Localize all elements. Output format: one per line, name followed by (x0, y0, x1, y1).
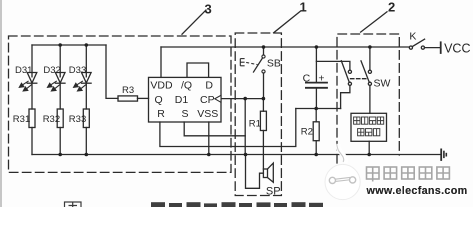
wire SP ground loop (246, 155, 264, 189)
svg-text:SP: SP (266, 186, 281, 198)
svg-text:D33: D33 (69, 65, 86, 76)
svg-text:1: 1 (300, 0, 307, 15)
svg-text:2: 2 (388, 0, 395, 15)
svg-text:R2: R2 (301, 127, 313, 138)
resistor R2 (313, 122, 319, 141)
speaker SP (263, 169, 267, 178)
wire S trace (184, 122, 245, 136)
switch SW right contacts (368, 70, 371, 73)
svg-text:www.elecfans.com: www.elecfans.com (366, 185, 468, 197)
wire D32 anode (59, 45, 61, 77)
switch SW left blade (341, 61, 349, 83)
LED D33 (82, 73, 92, 83)
wire CP to ground (244, 99, 246, 155)
wire K to VCC terminal (425, 47, 440, 49)
box 1 dashed (235, 33, 281, 196)
svg-text:D1: D1 (175, 94, 189, 106)
SB actuator E (240, 59, 257, 66)
leader line 1 (274, 12, 300, 33)
leader line 3 (182, 10, 206, 34)
capacitor C wire top (315, 47, 317, 83)
resistor R33 (83, 109, 89, 128)
caption character stubs (151, 202, 323, 207)
svg-text:Q: Q (155, 94, 163, 106)
capacitor C wire bottom (315, 88, 317, 109)
LED D32 (55, 73, 65, 83)
VCC terminal bar (440, 42, 442, 53)
wire SW right top (369, 47, 371, 70)
svg-text:CP: CP (200, 94, 215, 106)
resistor R1 (260, 111, 266, 130)
switch SB blade (254, 58, 263, 72)
wire SW right bottom (369, 85, 371, 113)
watermark logo circle (325, 164, 360, 199)
wire SW left bottom to node (341, 85, 350, 108)
wire solenoid to ground (368, 141, 370, 154)
wire LED top rail (32, 44, 106, 46)
switch SW gang link (351, 78, 367, 80)
switch SW right blade (361, 61, 369, 83)
wire /Q-D feedback loop (187, 63, 209, 77)
wire D33 anode (85, 45, 87, 77)
wire rail to R3 (106, 45, 118, 98)
svg-text:SW: SW (374, 77, 391, 89)
svg-text:R32: R32 (43, 114, 60, 125)
wire D32 cathode (59, 83, 61, 109)
wire D31 anode (31, 45, 33, 77)
svg-text:R1: R1 (249, 119, 261, 130)
wire R1 to SP (262, 131, 264, 170)
svg-text:R3: R3 (122, 85, 134, 96)
wire D33 cathode (85, 83, 87, 109)
op-amp U1 pin labels (150, 79, 218, 120)
switch K blade (412, 39, 424, 46)
leader line 2 (361, 12, 387, 32)
solenoid valve text 车门气缸 line 1 (simulated glyphs) (354, 117, 384, 124)
CP clock arrowhead (215, 95, 221, 102)
svg-text:VCC: VCC (444, 42, 470, 56)
wire C branch to SW left (316, 61, 350, 70)
LED D32 arrows (48, 81, 61, 91)
svg-text:+: + (318, 73, 324, 85)
box 3 dashed (9, 36, 232, 172)
svg-text:VSS: VSS (197, 108, 218, 120)
box 2 dashed (337, 34, 399, 163)
svg-text:R33: R33 (69, 114, 86, 125)
wire R1 top (262, 99, 264, 112)
svg-text:R: R (157, 108, 165, 120)
svg-text:/Q: /Q (181, 79, 192, 91)
svg-text:C: C (303, 73, 311, 85)
wire D31 cathode (31, 83, 33, 109)
caption 图 stub (65, 202, 82, 210)
switch K contacts (409, 46, 412, 49)
wire CP line (221, 98, 263, 100)
page edge band (0, 0, 2, 207)
svg-text:SB: SB (267, 58, 281, 70)
resistor R32 (57, 109, 63, 128)
solenoid valve text 电磁阀 line 2 (simulated glyphs) (358, 129, 380, 136)
wire R31 to ground rail (31, 128, 33, 155)
svg-text:K: K (409, 31, 416, 43)
wire VDD drop (160, 47, 162, 77)
watermark logo tail (338, 144, 346, 163)
switch SW left contacts (348, 70, 351, 73)
wire SB top (263, 47, 265, 55)
svg-text:D31: D31 (15, 65, 32, 76)
wire R2 top (315, 109, 317, 122)
wire SB bottom (263, 73, 265, 99)
wire ground rail (32, 154, 440, 156)
LED D31 (27, 73, 37, 83)
svg-text:D: D (205, 79, 213, 91)
ground symbol (440, 149, 442, 160)
svg-text:VDD: VDD (150, 79, 173, 91)
watermark text 电子发烧友 (simulated glyphs) (367, 167, 450, 182)
LED D33 arrows (74, 81, 87, 91)
resistor R3 (118, 96, 138, 101)
wire R33 to ground rail (85, 128, 87, 155)
op-amp U1 box (149, 77, 222, 122)
wire RC node line (296, 108, 341, 110)
capacitor C plates (306, 82, 327, 84)
wire R32 to ground rail (59, 128, 61, 155)
svg-text:R31: R31 (13, 114, 30, 125)
svg-text:3: 3 (205, 1, 212, 16)
wire R3 to Q (138, 97, 149, 99)
wire VCC rail (161, 46, 409, 48)
svg-text:D32: D32 (43, 65, 60, 76)
resistor R31 (29, 109, 35, 128)
wire R trace to RC node (160, 109, 296, 147)
wire R2 bottom (315, 141, 317, 155)
LED D31 arrows (19, 81, 32, 91)
wire VSS drop (208, 122, 210, 155)
svg-text:S: S (182, 108, 189, 120)
switch SB contacts (262, 55, 265, 73)
solenoid valve box (351, 113, 387, 141)
